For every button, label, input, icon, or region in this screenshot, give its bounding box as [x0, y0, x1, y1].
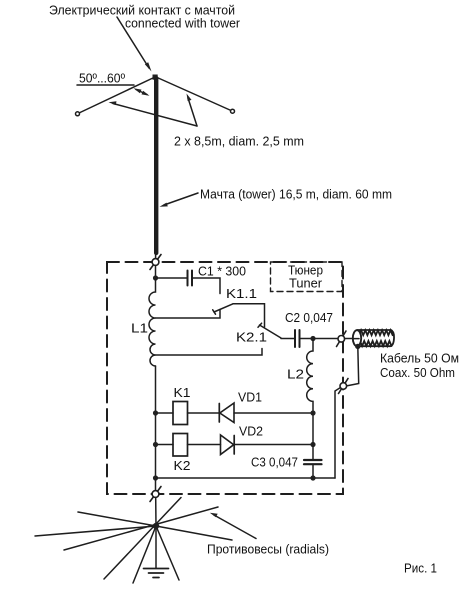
radial wire 7	[156, 526, 232, 540]
leader arrow from radials label	[214, 515, 256, 539]
antenna wire left (8.5 m)	[79, 77, 155, 113]
capacitor C1	[187, 271, 189, 286]
wire: output node to feedthrough	[313, 338, 338, 340]
wire: braid down to feedthrough	[346, 346, 359, 386]
svg-text:Tuner: Tuner	[289, 277, 322, 291]
wire: VD1 to right bus	[234, 412, 313, 414]
node: bus/K1 junction	[153, 410, 158, 415]
wire: node A to C1	[156, 277, 188, 279]
svg-text:C1 * 300: C1 * 300	[198, 265, 246, 279]
wire: L1 tap 1 to K1.1 pivot	[156, 310, 221, 319]
node A junction	[153, 275, 158, 280]
angle reference line	[77, 84, 134, 86]
feedthrough insulator at box right (signal)	[337, 331, 347, 347]
capacitor C2	[294, 330, 296, 347]
wire: C3 to ground bus	[312, 464, 314, 478]
angle double arrow	[136, 90, 147, 95]
wire: K1.1 to K2.1 fixed contact	[233, 304, 265, 327]
tuner label dashed box	[271, 262, 343, 292]
svg-text:Рис. 1: Рис. 1	[404, 561, 437, 576]
earth ground symbol	[144, 568, 169, 570]
wire: mast to feedthrough	[155, 251, 157, 259]
node: L2/VD1 junction	[310, 410, 315, 415]
tuner enclosure dashed box	[107, 262, 343, 494]
wire: C2 to output node	[300, 338, 313, 340]
node: bus/K2 junction	[153, 442, 158, 447]
capacitor C3	[304, 459, 322, 461]
svg-text:2 x 8,5m, diam. 2,5 mm: 2 x 8,5m, diam. 2,5 mm	[174, 134, 304, 149]
switch K2.1 blade	[260, 325, 282, 338]
wire: bus to relay K1	[156, 412, 174, 414]
radial wire 3 (through hub)	[64, 507, 218, 550]
wire: K2 to VD2	[188, 444, 221, 446]
relay coil K1	[173, 402, 188, 425]
wire: L1 tap 2 to K2.1 fixed contact	[156, 349, 263, 356]
feedthrough insulator at box bottom	[150, 487, 161, 502]
svg-text:C3 0,047: C3 0,047	[251, 456, 298, 470]
wire: K2.1 blade to C2	[281, 338, 295, 340]
left bus wire: L1 bottom down to box bottom	[155, 366, 157, 491]
radial wire 6	[156, 526, 179, 580]
radial wire 1	[78, 512, 156, 526]
radial wire 5	[133, 526, 156, 583]
coax center pin wire	[354, 338, 360, 340]
svg-text:Мачта (tower) 16,5 m, diam. 60: Мачта (tower) 16,5 m, diam. 60 mm	[200, 187, 392, 202]
radial wire 4 (through hub)	[104, 498, 181, 580]
mast top junction node	[153, 75, 158, 80]
svg-text:K1: K1	[174, 386, 191, 400]
wire: feedthrough to node A	[155, 266, 157, 279]
wire: braid feedthrough into box down to ground bus	[335, 388, 341, 479]
node: ground bus left junction	[153, 475, 158, 480]
leader arrow to left antenna wire	[113, 104, 197, 127]
wire: feedthrough to radial hub	[155, 498, 157, 527]
wire: K1 to VD1	[188, 412, 220, 414]
wire: bus to relay K2	[156, 444, 174, 446]
svg-text:K2.1: K2.1	[236, 331, 267, 345]
node: right bus/VD2 junction	[310, 442, 315, 447]
svg-text:Coax. 50 Ohm: Coax. 50 Ohm	[380, 365, 455, 380]
svg-text:L1: L1	[131, 321, 148, 336]
svg-text:K1.1: K1.1	[226, 287, 257, 301]
feedthrough insulator at box right (braid)	[339, 379, 349, 394]
svg-text:Кабель 50 Ом: Кабель 50 Ом	[380, 351, 459, 366]
svg-text:K2: K2	[174, 459, 191, 473]
node: coax braid	[355, 344, 360, 349]
relay coil K2	[173, 434, 188, 457]
wire: hub to earth ground	[155, 526, 157, 568]
svg-text:VD1: VD1	[238, 391, 262, 405]
svg-text:50º...60º: 50º...60º	[79, 72, 125, 86]
leader arrow from mast label to mast	[164, 193, 198, 205]
svg-text:Противовесы (radials): Противовесы (radials)	[207, 542, 329, 557]
node: ground bus/C3 junction	[310, 475, 315, 480]
ground bus wire	[156, 477, 336, 479]
switch K1.1 blade	[214, 304, 233, 312]
svg-text:Тюнер: Тюнер	[288, 264, 323, 278]
antenna wire right (8.5 m)	[156, 77, 231, 111]
inductor L1	[149, 278, 155, 366]
radial wire 2	[35, 526, 156, 536]
coax connector body	[357, 330, 394, 346]
svg-text:VD2: VD2	[239, 425, 263, 439]
wire: feedthrough to coax	[345, 338, 353, 340]
wire: C1 to K1.1 fixed contact	[193, 278, 221, 294]
svg-text:L2: L2	[287, 367, 304, 382]
leader arrow to right antenna wire	[188, 98, 197, 126]
diode VD2 (cathode right)	[221, 435, 234, 455]
wire: VD2 to right bus	[234, 444, 313, 446]
diode VD1 (cathode left)	[218, 404, 220, 423]
mast (tower) thick line	[154, 78, 158, 253]
wire: right bus L2 to C3	[312, 413, 314, 460]
feedthrough insulator at box top	[150, 255, 161, 270]
leader arrow from label to mast top	[117, 17, 149, 68]
svg-text:C2 0,047: C2 0,047	[285, 311, 333, 325]
svg-text:connected with tower: connected with tower	[125, 16, 241, 31]
node: C2/L2 junction	[310, 336, 315, 341]
inductor L2	[307, 339, 313, 414]
radial hub node	[153, 523, 159, 529]
